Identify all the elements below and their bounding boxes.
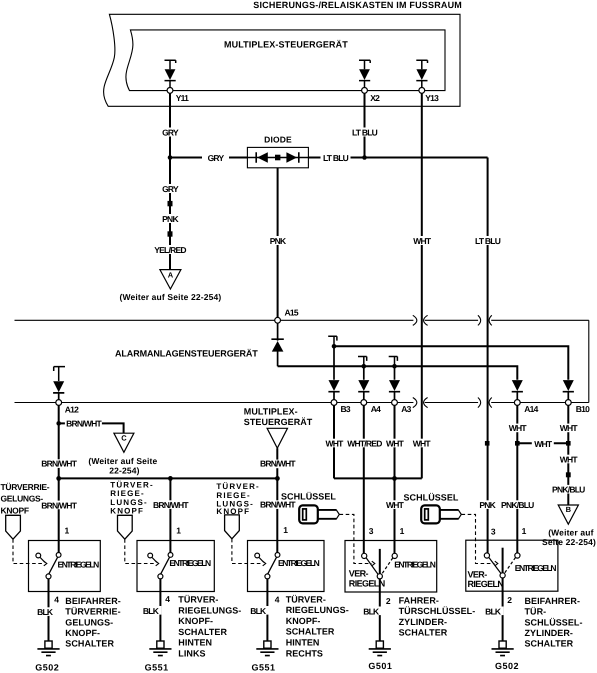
svg-text:KNOPF: KNOPF (110, 507, 144, 516)
svg-text:WHT: WHT (325, 438, 344, 448)
svg-text:MULTIPLEX-STEUERGERÄT: MULTIPLEX-STEUERGERÄT (224, 40, 348, 50)
svg-text:PNK: PNK (479, 500, 496, 510)
internal stub above A12 diode (54, 367, 65, 381)
knob switch box 2 (137, 541, 214, 592)
svg-text:GRY: GRY (208, 153, 225, 163)
wire from multiplex connector down to bus and switch 3 (276, 448, 278, 553)
wire A3 WHT down to key switch pin 1 (394, 405, 396, 553)
wire label BRN/WHT below bus on A12 wire (41, 501, 77, 511)
wire label PNK/BLU on A14 wire (501, 500, 534, 510)
wire label PNK (160, 214, 180, 224)
terminal A12 (56, 400, 62, 406)
svg-text:YEL/RED: YEL/RED (154, 245, 186, 255)
knob connector pentagon 1 (6, 515, 21, 539)
wire label BRN/WHT on A12 wire (41, 459, 77, 469)
svg-text:C: C (121, 434, 127, 443)
svg-text:PNK/BLU: PNK/BLU (501, 500, 534, 510)
wire label BLK (363, 607, 382, 617)
svg-text:SCHALTER: SCHALTER (525, 639, 574, 649)
internal stub above A3 (389, 357, 398, 367)
svg-text:TÜR-: TÜR- (525, 607, 547, 617)
junction X2 wire with LT BLU wire (362, 155, 367, 160)
wire label PNK on LT BLU continuation wire (477, 500, 497, 510)
svg-text:KNOPF-: KNOPF- (178, 616, 213, 626)
diode inside unit at X2 (359, 60, 370, 87)
svg-text:BEIFAHRER-: BEIFAHRER- (65, 596, 121, 606)
svg-text:VER-: VER- (349, 569, 369, 579)
wire label GRY (202, 153, 229, 163)
svg-text:TÜRVERRIE-: TÜRVERRIE- (1, 482, 50, 492)
dashed actuation line key 1 (340, 514, 372, 563)
svg-text:WHT: WHT (560, 455, 579, 465)
multiplex control unit box outline (torn left edge) (126, 30, 445, 91)
junction A4 internal (362, 364, 367, 369)
alarm unit box right edge (588, 320, 590, 402)
caption knob switch 3 (286, 594, 349, 658)
wire Y13 WHT down to lower bus (421, 93, 423, 478)
wire PNK from DIODE box down to A15 (277, 168, 279, 318)
svg-text:BRN/WHT: BRN/WHT (41, 459, 77, 469)
connector B (weiter auf Seite 22-254) (542, 505, 596, 547)
svg-text:LT BLU: LT BLU (352, 128, 378, 138)
wire label LT BLU (474, 236, 502, 246)
svg-text:WHT: WHT (560, 423, 579, 433)
dashed actuation line knob 2 (125, 539, 156, 563)
splice on Y11 wire GRY/PNK (168, 201, 173, 206)
wire label WHT (558, 423, 579, 433)
svg-text:WHT: WHT (386, 500, 405, 510)
junction B3 internal (332, 344, 337, 349)
terminal X2 (362, 88, 368, 94)
wire label WHT (507, 423, 528, 433)
svg-text:GELUNGS-: GELUNGS- (65, 617, 113, 627)
junction bus at A12 wire (56, 476, 61, 481)
svg-text:B: B (566, 505, 572, 514)
diode inside unit at Y13 (416, 60, 427, 87)
svg-text:TÜRVER-: TÜRVER- (110, 481, 153, 490)
junction A3 internal (392, 364, 397, 369)
svg-text:VER-: VER- (468, 570, 488, 580)
diode pair inside DIODE box (247, 152, 308, 163)
wire B10 down to connector B (567, 405, 569, 504)
wire label GRY (160, 128, 181, 138)
svg-text:ALARMANLAGENSTEUERGERÄT: ALARMANLAGENSTEUERGERÄT (115, 349, 258, 359)
terminal Y11 (167, 88, 173, 94)
svg-text:TÜRVER-: TÜRVER- (216, 482, 259, 491)
svg-text:BRN/WHT: BRN/WHT (260, 459, 296, 469)
ground G551 (145, 641, 172, 672)
svg-text:SCHLÜSSEL: SCHLÜSSEL (404, 492, 459, 502)
wire X2 down / LT BLU vertical label (364, 93, 366, 157)
svg-text:WHT: WHT (386, 438, 405, 448)
junction bus at knob switch 2 wire (168, 476, 173, 481)
svg-text:A15: A15 (285, 308, 299, 318)
terminal B3 (331, 400, 337, 406)
svg-text:RIEGE-: RIEGE- (216, 491, 250, 500)
wire A4 WHT/RED down to key switch pin 3 (363, 405, 365, 553)
diode above A4 (358, 366, 369, 399)
svg-text:RECHTS: RECHTS (286, 649, 323, 659)
junction WHT bus at A3 wire (392, 476, 397, 481)
svg-text:Y11: Y11 (176, 93, 189, 103)
svg-text:LT BLU: LT BLU (475, 236, 501, 246)
svg-text:TÜRSCHLÜSSEL-: TÜRSCHLÜSSEL- (399, 606, 476, 616)
svg-text:A4: A4 (371, 404, 381, 414)
wire label BRN/WHT below bus (260, 499, 296, 509)
diode (pointing up) below A15 (271, 323, 283, 366)
svg-text:ENTRIEGELN: ENTRIEGELN (278, 558, 320, 568)
wire A14 down to key switch 2 pin 1 (516, 405, 518, 553)
svg-text:G501: G501 (368, 661, 392, 671)
svg-text:(Weiter auf Seite: (Weiter auf Seite (88, 456, 157, 466)
component DIODE box (247, 147, 308, 167)
svg-text:22-254): 22-254) (109, 466, 139, 476)
svg-text:A: A (168, 271, 174, 280)
switch contacts key box 2 (484, 548, 520, 578)
wire B3 WHT down to bus (333, 405, 335, 478)
splice on B10 wire WHT/PNK-BLU (566, 472, 571, 477)
svg-text:A14: A14 (524, 404, 538, 414)
svg-text:GELUNGS-: GELUNGS- (1, 494, 44, 504)
terminal B10 (565, 400, 571, 406)
svg-text:WHT/RED: WHT/RED (347, 438, 382, 448)
wire label PNK/BLU (552, 485, 585, 495)
wire label GRY second on Y11 wire (160, 184, 181, 194)
wire label BLK (250, 606, 269, 616)
bus WHT horizontal joining B3 A3 Y13 (334, 477, 422, 479)
svg-text:X2: X2 (370, 93, 380, 103)
switch contacts box 1 (36, 553, 61, 579)
knob connector pentagon 2 (118, 515, 133, 539)
key switch box 1 FAHRER (345, 541, 437, 593)
svg-text:B3: B3 (341, 404, 351, 414)
svg-text:LINKS: LINKS (178, 649, 205, 659)
wire label BRN/WHT (153, 500, 189, 510)
svg-text:KNOPF-: KNOPF- (286, 616, 321, 626)
svg-text:Seite 22-254): Seite 22-254) (542, 537, 596, 547)
dashed actuation line knob 1 (13, 539, 44, 563)
svg-text:ENTRIEGELN: ENTRIEGELN (169, 558, 211, 568)
wire branch BRN/WHT to connector C (59, 423, 124, 433)
wire pin 2 to ground G502 (502, 578, 504, 641)
svg-text:ZYLINDER-: ZYLINDER- (525, 628, 573, 638)
svg-text:TÜRVERRIE-: TÜRVERRIE- (65, 607, 120, 617)
internal stub above B3 (328, 336, 337, 346)
wire label YEL/RED (154, 245, 188, 255)
svg-text:RIEGELUNGS-: RIEGELUNGS- (178, 605, 241, 615)
svg-text:(Weiter auf Seite 22-254): (Weiter auf Seite 22-254) (119, 292, 221, 302)
knob connector pentagon 3 (225, 515, 240, 539)
svg-text:(Weiter auf: (Weiter auf (548, 528, 593, 538)
svg-text:KNOPF-: KNOPF- (65, 628, 100, 638)
svg-text:RIEGE-: RIEGE- (110, 489, 144, 498)
svg-text:TÜRVER-: TÜRVER- (178, 595, 218, 605)
switch contacts key box 1 (362, 549, 398, 579)
svg-text:SCHLÜSSEL: SCHLÜSSEL (281, 492, 336, 502)
svg-text:SICHERUNGS-/RELAISKASTEN IM FU: SICHERUNGS-/RELAISKASTEN IM FUSSRAUM (253, 0, 462, 10)
switch contacts box 3 (255, 553, 280, 579)
wire label BRN/WHT (65, 419, 103, 429)
svg-text:TÜRVER-: TÜRVER- (286, 594, 326, 604)
wire label WHT below bus (384, 500, 405, 510)
svg-text:RIEGELN: RIEGELN (468, 579, 504, 589)
terminal A3 (392, 400, 398, 406)
svg-text:BLK: BLK (143, 606, 160, 616)
connector A (weiter auf Seite 22-254) (119, 270, 221, 303)
svg-text:BEIFAHRER-: BEIFAHRER- (525, 596, 581, 606)
wire A12 down to switch box 1 (58, 405, 60, 553)
svg-text:SCHALTER: SCHALTER (178, 627, 227, 637)
terminal A15 (275, 317, 281, 323)
svg-text:Y13: Y13 (425, 93, 439, 103)
ground G502 (35, 641, 59, 673)
wire LT BLU vertical down from elbow (487, 158, 489, 554)
wire label WHT (324, 438, 345, 448)
wire internal from B3 junction right to B10 elbow (334, 346, 568, 380)
svg-text:B10: B10 (576, 404, 590, 414)
svg-text:WHT: WHT (413, 236, 432, 246)
svg-text:BLK: BLK (37, 607, 54, 617)
svg-text:G502: G502 (495, 661, 519, 671)
junction on GRY wire (168, 155, 173, 160)
svg-text:BRN/WHT: BRN/WHT (41, 501, 77, 511)
caption knob switch 2 (178, 595, 241, 659)
bus BRN/WHT horizontal (59, 477, 278, 479)
svg-text:ENTRIEGELN: ENTRIEGELN (394, 560, 436, 570)
alarm unit box bottom edge with break marks (15, 398, 589, 408)
svg-text:MULTIPLEX-: MULTIPLEX- (244, 406, 298, 416)
knob switch box 3 (248, 541, 325, 592)
svg-text:WHT: WHT (413, 438, 432, 448)
svg-text:ENTRIEGELN: ENTRIEGELN (58, 559, 100, 569)
key switch box 2 BEIFAHRER (466, 540, 558, 591)
svg-text:ENTRIEGELN: ENTRIEGELN (515, 563, 557, 573)
svg-text:WHT: WHT (509, 423, 528, 433)
svg-text:PNK/BLU: PNK/BLU (552, 485, 585, 495)
alarm unit box top edge with break marks (15, 315, 589, 325)
wire label BRN/WHT above bus (260, 459, 296, 469)
ground G501 (368, 641, 392, 671)
svg-text:HINTEN: HINTEN (178, 638, 212, 648)
svg-text:G551: G551 (251, 662, 275, 672)
diode above A12 (53, 381, 64, 399)
caption key switch 2 (525, 596, 583, 649)
svg-text:A12: A12 (65, 404, 79, 414)
svg-text:G551: G551 (145, 662, 169, 672)
wire pin 4 to ground G502 (48, 579, 50, 641)
wire label LT BLU (321, 153, 351, 163)
svg-text:BLK: BLK (363, 607, 380, 617)
svg-text:SCHALTER: SCHALTER (65, 639, 114, 649)
junction on A12 wire for branch C (56, 421, 61, 426)
svg-text:GRY: GRY (162, 184, 179, 194)
wire internal from A15 diode right to A14 elbow (278, 366, 518, 380)
connector C (weiter auf Seite 22-254) (88, 433, 157, 475)
terminal A4 (361, 400, 367, 406)
splice on Y11 wire PNK/YEL-RED (168, 231, 173, 236)
diode inside unit at Y11 (165, 60, 176, 87)
svg-text:LT BLU: LT BLU (323, 153, 349, 163)
splice square on B10 wire (566, 441, 571, 446)
svg-text:DIODE: DIODE (264, 134, 292, 144)
wire label PNK (268, 236, 288, 246)
caption key switch 1 (399, 595, 476, 637)
terminal Y13 (419, 88, 425, 94)
svg-text:A3: A3 (401, 404, 411, 414)
wire label WHT (384, 438, 405, 448)
svg-text:RIEGELUNGS-: RIEGELUNGS- (286, 605, 349, 615)
svg-text:WHT: WHT (534, 439, 553, 449)
internal stub above A4 (358, 357, 367, 367)
svg-text:SCHLÜSSEL-: SCHLÜSSEL- (525, 617, 583, 627)
svg-text:ZYLINDER-: ZYLINDER- (399, 617, 447, 627)
diode above A3 (389, 366, 400, 399)
diode above B10 (563, 380, 574, 400)
svg-text:KNOPF: KNOPF (1, 505, 29, 515)
wire label BLK (142, 606, 161, 616)
knob switch box 1 (29, 541, 101, 592)
wire label BLK (485, 607, 504, 617)
terminal A14 (514, 400, 520, 406)
svg-text:SCHALTER: SCHALTER (399, 628, 448, 638)
splice square on A14 wire (515, 441, 520, 446)
dashed actuation line knob 3 (232, 539, 263, 564)
svg-text:HINTEN: HINTEN (286, 637, 320, 647)
svg-text:BRN/WHT: BRN/WHT (153, 500, 189, 510)
svg-text:BLK: BLK (485, 607, 502, 617)
dashed actuation line key 2 (462, 514, 495, 563)
diode above B3 (328, 346, 339, 399)
svg-text:BLK: BLK (250, 606, 267, 616)
wire label WHT/RED (347, 438, 382, 448)
svg-text:PNK: PNK (162, 214, 179, 224)
wire label WHT below link on B10 wire (558, 455, 579, 465)
svg-text:STEUERGERÄT: STEUERGERÄT (244, 417, 313, 427)
svg-text:FAHRER-: FAHRER- (399, 595, 439, 605)
wire knob switch 2 from bus down (169, 478, 171, 553)
diode above A14 (512, 380, 523, 400)
wire GRY horizontal to diode box (170, 157, 247, 159)
connector triangle from multiplex unit (267, 428, 287, 448)
caption knob switch 1 (65, 596, 121, 649)
switch contacts box 2 (148, 553, 173, 579)
ground G502 second (492, 641, 520, 671)
svg-text:GRY: GRY (162, 128, 179, 138)
wire pin 4 to ground G551 (159, 579, 161, 641)
wire label WHT on Y13 wire (412, 236, 433, 246)
junction bus at knob switch 3 wire (275, 476, 280, 481)
wire GRY from Y11 down (169, 93, 171, 269)
svg-text:G502: G502 (35, 663, 59, 673)
splice on LT BLU/PNK wire (485, 441, 490, 446)
fuse/relay box outline (torn left edge) (104, 14, 460, 106)
wire label BLK (37, 607, 56, 617)
wire LT BLU from diode box to X2 wire (308, 157, 487, 159)
wire pin 4 to ground G551 (266, 579, 268, 641)
wire label WHT on link (532, 439, 554, 449)
svg-text:LUNGS-: LUNGS- (110, 498, 148, 507)
wire pin 2 to ground G501 (379, 579, 381, 641)
svg-text:PNK: PNK (270, 236, 287, 246)
ground G551 second (251, 641, 278, 672)
wire WHT link between A14 and B10 wires (517, 442, 568, 444)
wire label WHT on Y13 wire above bus (411, 438, 432, 448)
svg-text:SCHALTER: SCHALTER (286, 627, 335, 637)
svg-text:BRN/WHT: BRN/WHT (66, 419, 102, 429)
